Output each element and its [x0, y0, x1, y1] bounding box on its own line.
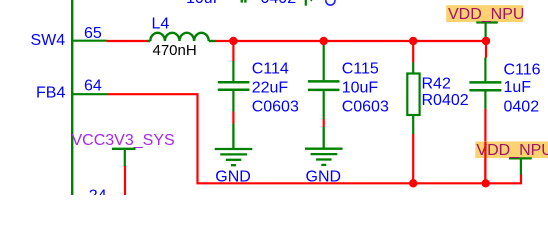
svg-text:0402: 0402	[261, 0, 297, 7]
svg-text:1uF: 1uF	[504, 79, 532, 96]
svg-text:VCC3V3_SYS: VCC3V3_SYS	[72, 132, 175, 149]
svg-text:22uF: 22uF	[252, 79, 289, 96]
junction dot (R42 top node)	[409, 37, 417, 45]
svg-text:C115: C115	[342, 60, 379, 77]
wire stub to R42	[412, 41, 414, 63]
svg-text:10uF: 10uF	[186, 0, 223, 7]
svg-text:470nH: 470nH	[153, 42, 197, 59]
svg-text:C116: C116	[504, 61, 541, 78]
wire C115 to GND	[323, 119, 325, 127]
clipped capacitor plate stubs (row above)	[242, 0, 246, 3]
svg-text:65: 65	[84, 25, 102, 42]
junction dot (L4 / C114 node)	[229, 37, 237, 45]
svg-text:C0603: C0603	[252, 99, 299, 116]
power port VDD_NPU (top), highlighted	[446, 5, 524, 41]
svg-text:10uF: 10uF	[342, 79, 379, 96]
resistor R42	[407, 62, 419, 134]
capacitor C115	[308, 41, 340, 119]
svg-text:R0402: R0402	[422, 92, 469, 109]
capacitor C114	[218, 61, 250, 112]
pin 64 (FB4)	[73, 93, 107, 95]
svg-text:L4: L4	[152, 16, 170, 33]
clipped blue circle marker (row above)	[326, 0, 335, 5]
pin 65 (SW4)	[73, 40, 107, 42]
svg-text:0402: 0402	[504, 99, 540, 116]
junction dot (C115 node)	[320, 37, 328, 45]
junction dot (C116 bottom node)	[482, 179, 490, 187]
svg-text:VDD_NPU: VDD_NPU	[448, 6, 524, 23]
capacitor C116	[469, 58, 501, 109]
wire R42 to bottom rail	[412, 134, 414, 183]
svg-text:VDD_NPU: VDD_NPU	[476, 142, 548, 159]
wire SW4 pin to L4	[107, 40, 148, 42]
wire C116 to bottom rail (crosses VDD_NPU label)	[484, 109, 486, 184]
junction dot (R42 bottom node)	[409, 179, 417, 187]
svg-text:C114: C114	[252, 60, 289, 77]
wire C114 to GND	[232, 112, 234, 124]
ground GND (under C114)	[215, 124, 253, 166]
svg-text:FB4: FB4	[36, 85, 65, 102]
wire stub to C116	[485, 41, 487, 58]
junction dot (VDD_NPU top node)	[482, 37, 490, 45]
svg-text:64: 64	[84, 77, 102, 94]
svg-text:C0603: C0603	[342, 99, 389, 116]
svg-text:R42: R42	[422, 76, 451, 93]
clipped small green mark (row above)	[311, 0, 312, 2]
IC U? left-edge outline	[71, 0, 73, 195]
wire L4 to VDD_NPU rail (top)	[216, 40, 486, 42]
wire C116 vertical over label (redraw over box)	[484, 142, 486, 184]
wire VCC3V3_SYS to pin 24	[124, 166, 126, 195]
svg-text:SW4: SW4	[31, 32, 66, 49]
power port VCC3V3_SYS	[72, 132, 175, 166]
svg-text:24: 24	[89, 187, 107, 195]
wire stub to C114	[232, 41, 234, 61]
power port VDD_NPU (bottom), highlighted	[475, 142, 548, 175]
ground GND (under C115)	[305, 127, 343, 165]
inductor L4	[147, 33, 216, 41]
wire FB4 to bottom rail	[107, 94, 521, 183]
clipped green pin stub (row above)	[305, 0, 307, 6]
